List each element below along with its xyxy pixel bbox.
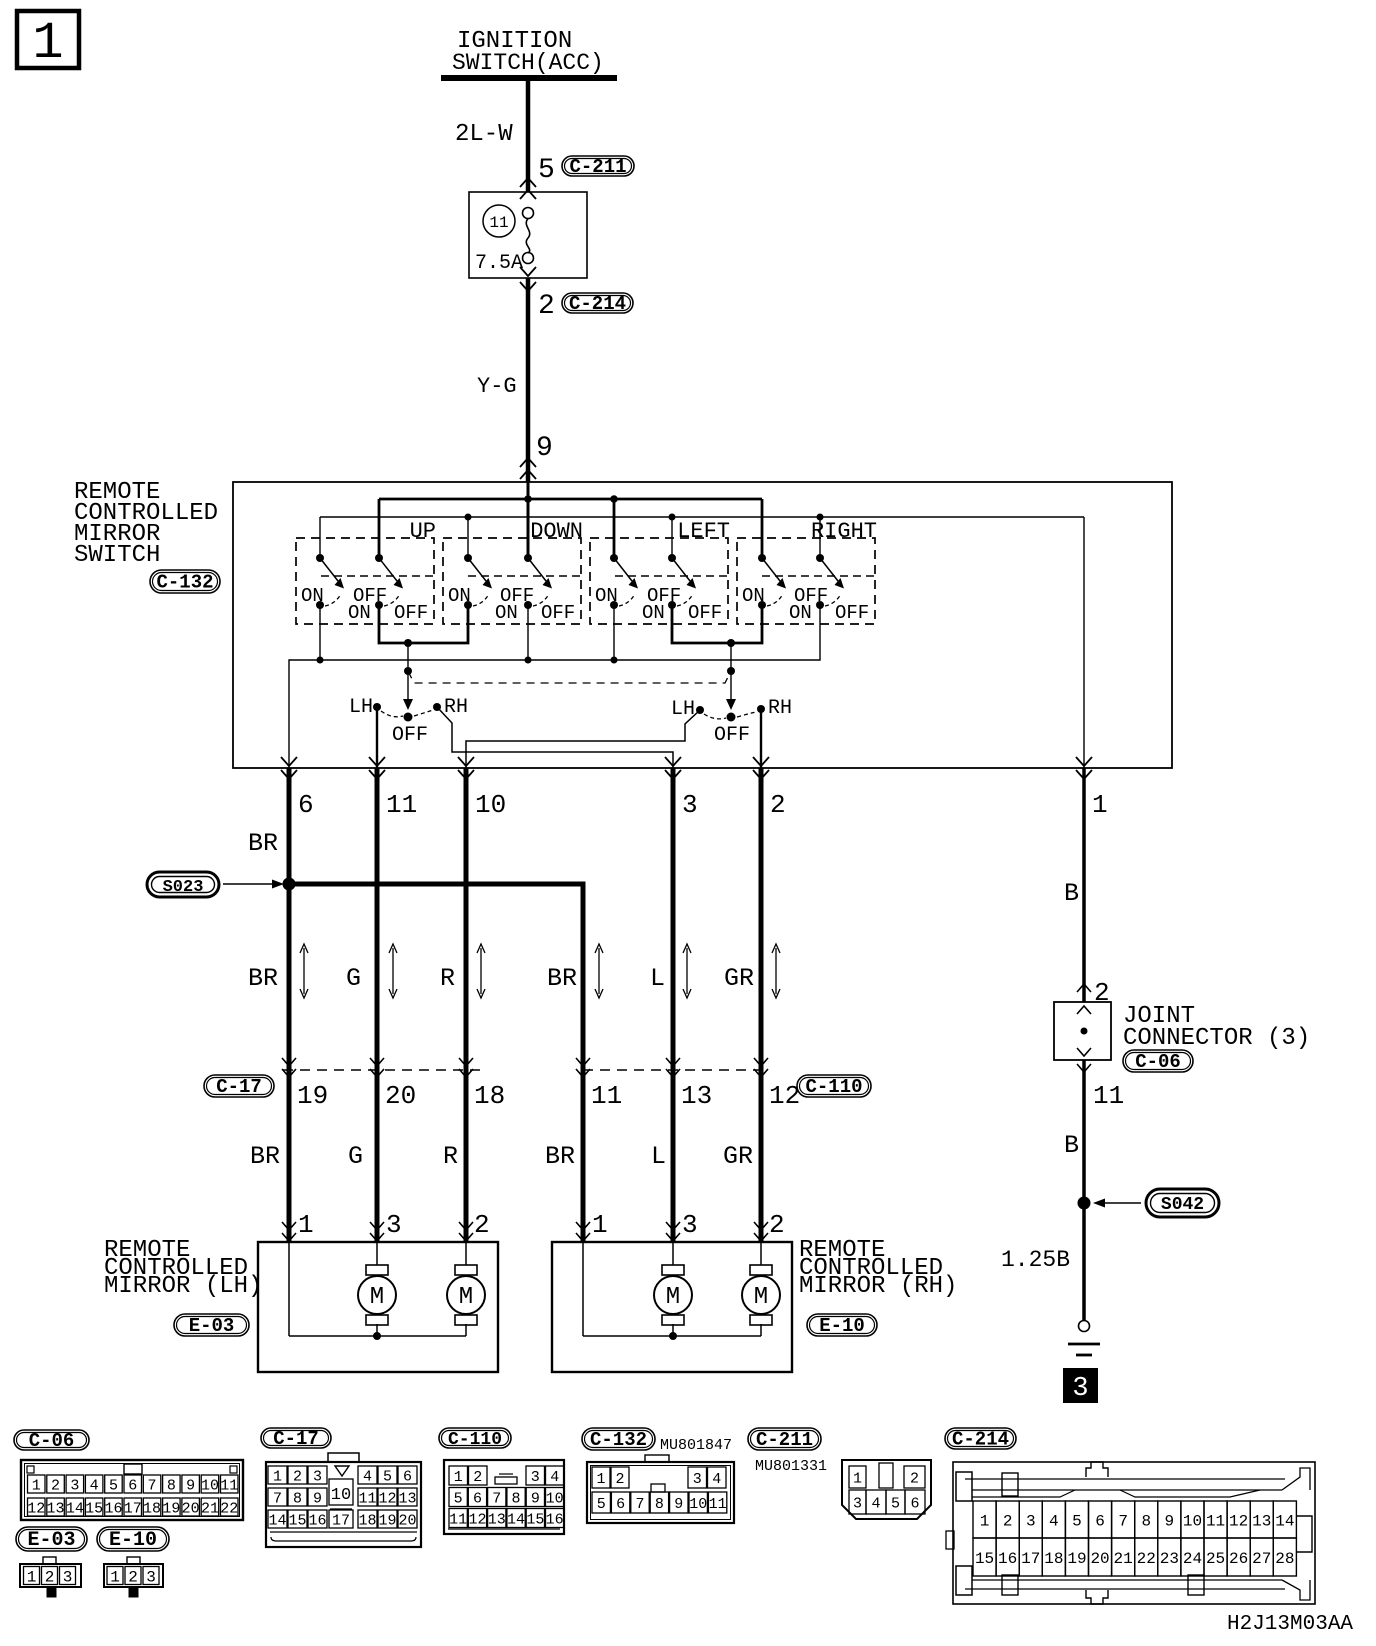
svg-text:1: 1 [298, 1210, 314, 1240]
connector C-211 pinout body [842, 1460, 931, 1519]
svg-text:SWITCH(ACC): SWITCH(ACC) [452, 50, 604, 76]
pin 9 of mirror switch [520, 433, 553, 479]
motion arrow [598, 948, 600, 994]
svg-text:2: 2 [770, 790, 786, 820]
svg-text:19: 19 [1067, 1550, 1086, 1568]
svg-text:E-10: E-10 [819, 1315, 865, 1337]
pins of C-110 [449, 1466, 564, 1528]
connector C-06 pinout body [21, 1460, 243, 1520]
svg-text:3: 3 [63, 1568, 73, 1586]
ground reference box 3 [1064, 1369, 1097, 1404]
svg-text:16: 16 [104, 1500, 122, 1517]
pin 2 at mirror [754, 1210, 785, 1241]
svg-text:9: 9 [531, 1490, 540, 1507]
pins 15-28 of C-214 [973, 1538, 1296, 1576]
arrow into junction block [520, 178, 536, 199]
svg-text:6: 6 [298, 790, 314, 820]
svg-text:CONNECTOR (3): CONNECTOR (3) [1123, 1025, 1310, 1052]
connector label C-214 [562, 293, 633, 313]
svg-text:ON: ON [789, 602, 812, 624]
svg-text:2: 2 [473, 1469, 482, 1486]
connector C-110 pinout body [444, 1460, 564, 1534]
svg-text:9: 9 [186, 1477, 195, 1494]
pin 19 at connector line [282, 1058, 328, 1111]
selector 2 tap wire [726, 643, 736, 722]
svg-text:15: 15 [85, 1500, 103, 1517]
svg-text:10: 10 [201, 1477, 219, 1494]
motion arrow [480, 948, 482, 994]
pin 12 at connector line [754, 1058, 800, 1111]
svg-text:11: 11 [489, 214, 508, 232]
svg-text:28: 28 [1275, 1550, 1294, 1568]
svg-text:BR: BR [248, 964, 278, 993]
svg-text:3: 3 [531, 1469, 540, 1486]
motion arrow [775, 948, 777, 994]
svg-text:ON: ON [301, 585, 324, 607]
svg-text:ON: ON [595, 585, 618, 607]
motor M horizontal LH [455, 1265, 477, 1275]
svg-text:15: 15 [288, 1512, 306, 1529]
svg-text:MU801847: MU801847 [660, 1437, 732, 1454]
svg-text:M: M [666, 1284, 680, 1311]
pin 1 at mirror [576, 1210, 608, 1241]
svg-text:11: 11 [358, 1490, 376, 1507]
svg-text:22: 22 [1137, 1550, 1156, 1568]
connector label C-211 [562, 156, 634, 176]
svg-text:LEFT: LEFT [677, 519, 730, 544]
svg-text:2: 2 [474, 1210, 490, 1240]
svg-text:11: 11 [220, 1477, 238, 1494]
svg-text:C-214: C-214 [569, 293, 626, 315]
svg-text:11: 11 [1206, 1512, 1225, 1530]
wire feed into switch [527, 482, 530, 558]
connector label C-17 pinout [261, 1428, 331, 1448]
svg-text:6: 6 [473, 1490, 482, 1507]
selector 1 tap wire [403, 643, 413, 722]
junction RH mirror common [669, 1332, 677, 1340]
svg-text:C-110: C-110 [805, 1076, 862, 1098]
wire GR pin2 to C-110 [724, 768, 761, 1068]
svg-text:3: 3 [1026, 1512, 1036, 1530]
svg-text:Y-G: Y-G [477, 374, 517, 399]
svg-text:19: 19 [162, 1500, 180, 1517]
junction at S042 [1078, 1197, 1091, 1210]
pin 11 at connector line [576, 1058, 622, 1111]
svg-text:ON: ON [348, 602, 371, 624]
svg-text:8: 8 [1141, 1512, 1151, 1530]
svg-text:20: 20 [182, 1500, 200, 1517]
svg-text:RH: RH [444, 696, 468, 719]
connector label C-110 pinout [439, 1428, 511, 1448]
svg-text:20: 20 [1090, 1550, 1109, 1568]
switch section LEFT [590, 519, 730, 624]
junction LH mirror common [373, 1332, 381, 1340]
svg-text:L: L [651, 1142, 666, 1171]
svg-text:16: 16 [308, 1512, 326, 1529]
svg-text:4: 4 [712, 1471, 721, 1488]
svg-text:14: 14 [1275, 1512, 1294, 1530]
pin 6 of mirror switch [281, 757, 314, 820]
wire Y-G from junction block to mirror switch [477, 278, 528, 482]
svg-text:3: 3 [693, 1471, 702, 1488]
connector label C-132 [150, 570, 220, 593]
svg-text:5: 5 [1072, 1512, 1082, 1530]
connector E-03 pinout body [20, 1557, 81, 1597]
junction on bus A at feed [524, 495, 532, 503]
motor M vertical LH [366, 1265, 388, 1275]
wire R C-17 to LH mirror [443, 1068, 466, 1242]
fuse 11 7.5A [483, 205, 534, 264]
pin 3 of mirror switch [665, 757, 698, 820]
svg-text:5: 5 [538, 155, 555, 186]
svg-text:9: 9 [313, 1490, 322, 1507]
svg-text:10: 10 [475, 790, 506, 820]
junction output rail DOWN pole2 [525, 657, 532, 664]
svg-text:LH: LH [671, 698, 695, 721]
bus B return rail to pin 1 [320, 517, 1084, 768]
node IGNITION SWITCH (ACC) [441, 28, 617, 78]
svg-text:B: B [1064, 879, 1079, 908]
remote controlled mirror RH label [799, 1237, 957, 1300]
svg-text:G: G [346, 964, 361, 993]
mechanical link dashed between selectors [408, 671, 731, 683]
wire BR pin6 to S023 [248, 768, 289, 884]
pin 3 at mirror [370, 1210, 402, 1241]
svg-text:M: M [370, 1284, 384, 1311]
svg-text:L: L [650, 964, 665, 993]
svg-text:C-17: C-17 [273, 1428, 319, 1450]
svg-text:5: 5 [454, 1490, 463, 1507]
pins of C-132 [592, 1467, 727, 1513]
svg-text:5: 5 [109, 1477, 118, 1494]
svg-text:OFF: OFF [392, 724, 428, 747]
motor M horizontal RH [750, 1265, 772, 1275]
svg-text:3: 3 [313, 1468, 322, 1485]
svg-text:S023: S023 [163, 878, 204, 897]
selector switch 1 LH-OFF-RH [349, 696, 468, 747]
svg-text:OFF: OFF [394, 602, 428, 624]
wire BR S023 to C-17 [248, 884, 289, 1068]
svg-text:OFF: OFF [688, 602, 722, 624]
svg-text:5: 5 [383, 1468, 392, 1485]
svg-text:16: 16 [998, 1550, 1017, 1568]
wire 1.25B S042 to ground [1001, 1203, 1084, 1320]
switch section UP [296, 519, 436, 624]
svg-text:M: M [754, 1284, 768, 1311]
svg-text:2: 2 [615, 1471, 624, 1488]
wire selector1 LH to pin 11 [376, 707, 378, 768]
svg-text:26: 26 [1229, 1550, 1248, 1568]
connector label C-06 pinout [14, 1430, 89, 1450]
svg-text:20: 20 [385, 1081, 416, 1111]
svg-text:SWITCH: SWITCH [74, 542, 160, 569]
pin 2 of mirror switch [753, 757, 786, 820]
svg-text:6: 6 [616, 1496, 625, 1513]
svg-text:1.25B: 1.25B [1001, 1247, 1070, 1273]
svg-text:10: 10 [1183, 1512, 1202, 1530]
sheet number box 1 [17, 11, 79, 73]
svg-text:12: 12 [769, 1081, 800, 1111]
svg-text:C-211: C-211 [756, 1429, 813, 1451]
svg-text:GR: GR [724, 964, 754, 993]
svg-text:OFF: OFF [835, 602, 869, 624]
junction bus B left switch [669, 514, 676, 521]
svg-text:5: 5 [891, 1495, 900, 1512]
svg-text:DOWN: DOWN [530, 519, 583, 544]
bus A feed rail [379, 499, 762, 558]
svg-text:10: 10 [331, 1486, 351, 1505]
svg-text:BR: BR [545, 1142, 575, 1171]
svg-text:R: R [443, 1142, 458, 1171]
svg-text:ON: ON [742, 585, 765, 607]
svg-text:7: 7 [273, 1490, 282, 1507]
svg-text:24: 24 [1183, 1550, 1202, 1568]
svg-text:C-17: C-17 [216, 1076, 262, 1098]
svg-text:G: G [348, 1142, 363, 1171]
svg-text:12: 12 [468, 1511, 486, 1528]
wire BR branch to RH mirror [289, 884, 583, 1068]
svg-text:C-06: C-06 [29, 1430, 75, 1452]
svg-text:1: 1 [32, 14, 63, 73]
pin 2 at mirror [459, 1210, 490, 1241]
svg-text:1: 1 [592, 1210, 608, 1240]
svg-text:7: 7 [148, 1477, 157, 1494]
connector C-17 pinout body [266, 1453, 421, 1547]
svg-text:3: 3 [146, 1568, 156, 1586]
pin 18 at connector line [459, 1058, 505, 1111]
svg-text:H2J13M03AA: H2J13M03AA [1227, 1613, 1353, 1636]
svg-text:12: 12 [27, 1500, 45, 1517]
svg-text:4: 4 [550, 1469, 559, 1486]
wire L C-110 to RH mirror [651, 1068, 673, 1242]
pin 1 of mirror switch [1076, 757, 1108, 820]
connector label C-214 pinout [945, 1428, 1016, 1449]
switch section DOWN [443, 519, 583, 624]
svg-text:17: 17 [1021, 1550, 1040, 1568]
svg-text:C-110: C-110 [448, 1430, 502, 1450]
remote controlled mirror LH body E-03 [258, 1242, 498, 1372]
connector line C-110 [583, 1069, 766, 1071]
svg-text:4: 4 [871, 1495, 880, 1512]
svg-text:27: 27 [1252, 1550, 1271, 1568]
pin 10 of mirror switch [458, 757, 506, 820]
svg-text:RIGHT: RIGHT [811, 519, 877, 544]
svg-text:2: 2 [910, 1470, 919, 1487]
wire selector1 RH to pin 3 [437, 707, 673, 768]
joint connector body C-06 [1054, 1002, 1111, 1072]
connector line C-17 [283, 1069, 480, 1071]
svg-text:8: 8 [655, 1496, 664, 1513]
svg-text:1: 1 [32, 1477, 41, 1494]
svg-text:1: 1 [27, 1568, 37, 1586]
svg-text:13: 13 [398, 1490, 416, 1507]
svg-text:13: 13 [488, 1511, 506, 1528]
svg-text:ON: ON [642, 602, 665, 624]
junction at S023 [283, 878, 296, 891]
pins of C-211 [849, 1463, 925, 1514]
svg-text:E-03: E-03 [189, 1315, 235, 1337]
switch section RIGHT [737, 519, 877, 624]
connector label C-211 pinout [748, 1428, 821, 1450]
svg-text:12: 12 [378, 1490, 396, 1507]
svg-text:1: 1 [596, 1471, 605, 1488]
svg-text:7: 7 [1118, 1512, 1128, 1530]
pin 5 of connector C-211 [538, 155, 555, 186]
svg-text:MIRROR (RH): MIRROR (RH) [799, 1273, 957, 1300]
svg-text:11: 11 [709, 1496, 727, 1513]
svg-text:11: 11 [591, 1081, 622, 1111]
pins 1-11 of C-06 [28, 1475, 239, 1494]
svg-text:C-211: C-211 [569, 156, 626, 178]
svg-text:2: 2 [128, 1568, 138, 1586]
pin 2 of joint connector [1077, 978, 1110, 1014]
svg-text:OFF: OFF [541, 602, 575, 624]
svg-text:8: 8 [167, 1477, 176, 1494]
svg-text:18: 18 [1044, 1550, 1063, 1568]
svg-text:2: 2 [538, 291, 555, 322]
svg-text:BR: BR [250, 1142, 280, 1171]
svg-text:22: 22 [220, 1500, 238, 1517]
svg-text:R: R [440, 964, 455, 993]
wire BR C-110 to RH mirror [545, 1068, 583, 1242]
svg-text:3: 3 [70, 1477, 79, 1494]
pins 12-22 of C-06 [27, 1498, 238, 1517]
svg-text:9: 9 [1165, 1512, 1175, 1530]
pin 20 at connector line [370, 1058, 416, 1111]
wire LEFT pole2 RIGHT pole1 common U link [672, 605, 762, 647]
pin 3 at mirror [666, 1210, 698, 1241]
svg-text:8: 8 [293, 1490, 302, 1507]
pin 13 at connector line [666, 1058, 712, 1111]
wire B joint connector to S042 [1064, 1060, 1084, 1203]
svg-text:11: 11 [1093, 1081, 1124, 1111]
svg-text:2L-W: 2L-W [455, 121, 513, 148]
connector label C-17 [204, 1075, 274, 1097]
svg-text:2: 2 [1003, 1512, 1013, 1530]
svg-text:4: 4 [363, 1468, 372, 1485]
svg-text:7.5A: 7.5A [475, 252, 523, 275]
svg-text:8: 8 [512, 1490, 521, 1507]
motion arrow [686, 948, 688, 994]
junction bus B down switch [465, 514, 472, 521]
svg-text:C-214: C-214 [952, 1429, 1009, 1451]
svg-text:6: 6 [403, 1468, 412, 1485]
svg-text:13: 13 [47, 1500, 65, 1517]
svg-text:18: 18 [474, 1081, 505, 1111]
svg-text:2: 2 [769, 1210, 785, 1240]
motor M vertical RH [662, 1265, 684, 1275]
svg-text:MIRROR (LH): MIRROR (LH) [104, 1273, 262, 1300]
svg-text:5: 5 [597, 1496, 606, 1513]
svg-text:6: 6 [910, 1495, 919, 1512]
svg-text:10: 10 [689, 1496, 707, 1513]
connector label C-132 pinout [582, 1428, 655, 1450]
connector label C-06 [1123, 1050, 1193, 1072]
svg-text:OFF: OFF [714, 724, 750, 747]
junction on bus A at left switch [610, 495, 618, 503]
junction block U1 [469, 192, 587, 278]
svg-text:3: 3 [682, 1210, 698, 1240]
wire L pin3 to C-110 [650, 768, 673, 1068]
connector C-214 pinout body [946, 1462, 1315, 1604]
svg-text:1: 1 [1092, 790, 1108, 820]
motion arrow [392, 948, 394, 994]
pin 2 of connector C-214 [538, 291, 555, 322]
svg-text:14: 14 [507, 1511, 525, 1528]
svg-text:2: 2 [293, 1468, 302, 1485]
svg-text:E-03: E-03 [27, 1529, 75, 1552]
svg-text:9: 9 [674, 1496, 683, 1513]
pin 11 of mirror switch [369, 757, 417, 820]
splice S042 [1093, 1189, 1219, 1217]
svg-text:11: 11 [449, 1511, 467, 1528]
remote controlled mirror LH label [104, 1237, 262, 1300]
svg-text:10: 10 [546, 1490, 564, 1507]
svg-text:RH: RH [768, 697, 792, 720]
selector switch 2 LH-OFF-RH [671, 697, 792, 747]
mirror switch body box C-132 [233, 482, 1172, 768]
pins 1-14 of C-214 [973, 1501, 1296, 1538]
connector E-10 pinout body [104, 1557, 163, 1597]
svg-text:13: 13 [1252, 1512, 1271, 1530]
svg-text:9: 9 [536, 433, 553, 464]
svg-text:1: 1 [980, 1512, 990, 1530]
svg-text:21: 21 [1114, 1550, 1133, 1568]
svg-text:1: 1 [110, 1568, 120, 1586]
svg-text:13: 13 [681, 1081, 712, 1111]
svg-text:20: 20 [398, 1512, 416, 1529]
svg-text:UP: UP [410, 519, 436, 544]
svg-text:1: 1 [853, 1470, 862, 1487]
remote controlled mirror switch label [74, 479, 218, 569]
joint connector label [1123, 1003, 1310, 1052]
svg-text:4: 4 [90, 1477, 99, 1494]
svg-text:2: 2 [45, 1568, 55, 1586]
remote controlled mirror RH body E-10 [552, 1242, 792, 1372]
svg-text:ON: ON [495, 602, 518, 624]
pins of C-17 [268, 1466, 417, 1529]
svg-text:1: 1 [273, 1468, 282, 1485]
wire GR C-110 to RH mirror [723, 1068, 761, 1242]
wire UP pole2 DOWN pole1 common U link [379, 605, 468, 647]
svg-text:7: 7 [492, 1490, 501, 1507]
svg-text:BR: BR [248, 829, 278, 858]
svg-text:19: 19 [297, 1081, 328, 1111]
svg-text:B: B [1064, 1131, 1079, 1160]
svg-text:S042: S042 [1161, 1195, 1204, 1215]
motion arrow [303, 948, 305, 994]
svg-text:C-132: C-132 [156, 572, 213, 594]
svg-text:ON: ON [448, 585, 471, 607]
wire 2L-W from ignition switch to junction block [455, 78, 528, 192]
svg-text:3: 3 [386, 1210, 402, 1240]
wire B pin1 to joint connector [1064, 768, 1084, 1002]
svg-text:16: 16 [546, 1511, 564, 1528]
svg-text:14: 14 [66, 1500, 84, 1517]
connector C-132 pinout body [587, 1455, 734, 1523]
svg-text:21: 21 [201, 1500, 219, 1517]
svg-text:3: 3 [853, 1495, 862, 1512]
wire G C-17 to LH mirror [348, 1068, 377, 1242]
junction output rail LEFT pole1 [611, 657, 618, 664]
svg-text:2: 2 [51, 1477, 60, 1494]
pin 1 at mirror [282, 1210, 314, 1241]
svg-text:1: 1 [454, 1469, 463, 1486]
svg-text:25: 25 [1206, 1550, 1225, 1568]
wire R pin10 to C-17 [440, 768, 466, 1068]
ground G [1068, 1321, 1100, 1356]
svg-text:19: 19 [378, 1512, 396, 1529]
